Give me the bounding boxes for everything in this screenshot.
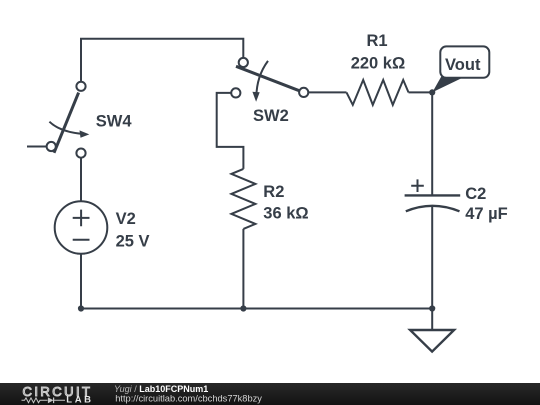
resistor R1 zigzag	[347, 80, 409, 105]
svg-text:V2: V2	[116, 210, 136, 228]
switch SW4 actuation arc	[49, 122, 82, 134]
switch SW2 terminal left	[231, 88, 240, 97]
svg-text:http://circuitlab.com/cbchds77: http://circuitlab.com/cbchds77k8bzy	[115, 394, 262, 404]
svg-text:47 µF: 47 µF	[465, 205, 508, 223]
switch SW4 terminal aux	[47, 142, 56, 151]
svg-text:SW4: SW4	[96, 113, 133, 131]
wire C2 bottom	[431, 207, 433, 309]
svg-text:Vout: Vout	[445, 56, 481, 74]
svg-text:C2: C2	[465, 185, 486, 203]
wire top-left L from SW4 top to SW2 top	[81, 39, 243, 82]
svg-text:36 kΩ: 36 kΩ	[263, 205, 308, 223]
wire to ground symbol	[431, 309, 433, 331]
wire R2 bottom	[242, 229, 244, 309]
voltage source V2 minus sign	[73, 239, 90, 241]
switch SW4 terminal bottom	[76, 149, 85, 158]
capacitor C2 top plate	[405, 194, 461, 196]
svg-text:25 V: 25 V	[116, 233, 150, 251]
footer bar	[0, 383, 540, 405]
capacitor C2 plus sign	[411, 179, 424, 192]
svg-text:R1: R1	[367, 32, 388, 50]
switch SW2 terminal right	[299, 88, 308, 97]
wire SW4 bottom to V2	[80, 157, 82, 201]
wire SW4 aux stub	[27, 146, 47, 148]
wire Vout node down to C2	[431, 92, 433, 195]
net flag Vout box	[440, 46, 489, 77]
voltage source V2 plus sign	[73, 210, 90, 227]
junction node Vout	[429, 89, 435, 95]
logo circuit art: wire, resistor zigzag, diode	[22, 397, 66, 403]
CircuitLab logo wordmark CIRCUIT	[0, 383, 110, 405]
svg-text:R2: R2	[263, 183, 284, 201]
switch SW4 blade	[54, 93, 79, 153]
wire SW2 right to R1	[308, 91, 346, 93]
junction at R2 bottom	[240, 305, 246, 311]
switch SW4 terminal top	[76, 82, 85, 91]
svg-text:Yugi / Lab10FCPNum1: Yugi / Lab10FCPNum1	[114, 384, 208, 394]
wire R2 top L to SW2 left terminal	[217, 93, 244, 169]
switch SW2 actuation arc	[256, 61, 268, 97]
ground symbol	[410, 330, 454, 352]
switch SW2 terminal top	[239, 58, 248, 67]
svg-text:220 kΩ: 220 kΩ	[351, 55, 406, 73]
wire bottom rail	[81, 308, 432, 310]
net flag Vout pointer wedge	[432, 77, 462, 93]
switch SW2 arrow head	[252, 92, 259, 102]
capacitor C2 bottom plate arc	[406, 206, 460, 212]
junction at ground node	[429, 305, 435, 311]
switch SW2 blade	[236, 66, 300, 91]
resistor R2 zigzag	[231, 169, 255, 229]
wire R1 to output node	[409, 91, 433, 93]
junction at V2 bottom	[78, 305, 84, 311]
wire V2 bottom	[80, 254, 82, 309]
switch SW4 arrow head	[80, 130, 90, 137]
voltage source V2 body	[55, 201, 108, 254]
svg-text:SW2: SW2	[253, 107, 289, 125]
svg-text:LAB: LAB	[66, 395, 93, 405]
